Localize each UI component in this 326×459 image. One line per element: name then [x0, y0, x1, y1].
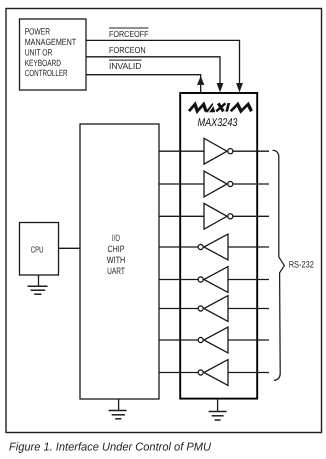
svg-text:FORCEON: FORCEON: [109, 45, 146, 55]
wire R5 output: [159, 372, 198, 374]
svg-text:UART: UART: [107, 266, 125, 276]
receiver R3 (triangle with bubble): [198, 296, 228, 322]
wire R3 input: [228, 308, 269, 310]
wire R4 input: [228, 339, 269, 341]
wire R3 output: [159, 308, 198, 310]
wire T3 input: [159, 215, 204, 217]
ground (below MAX3243): [209, 399, 227, 420]
svg-text:UNIT OR: UNIT OR: [25, 47, 53, 57]
driver T2 (triangle with bubble): [204, 171, 233, 197]
label FORCEOFF (overlined): [109, 28, 149, 39]
svg-text:MANAGEMENT: MANAGEMENT: [25, 37, 77, 47]
block PMU: POWER MANAGEMENT UNIT OR KEYBOARD CONTROLLER: [20, 19, 87, 90]
block I/O CHIP WITH UART: [80, 124, 159, 399]
receiver R2 (triangle with bubble): [198, 267, 228, 293]
svg-text:FORCEOFF: FORCEOFF: [109, 29, 149, 39]
block CPU: [20, 223, 59, 276]
svg-text:CHIP: CHIP: [107, 244, 124, 254]
wire FORCEON (PMU to MAX3243, turns down at x=220): [86, 57, 223, 93]
wire R1 input (from RS-232): [228, 246, 269, 248]
logo MAXIM (stylized wordmark): [189, 103, 254, 112]
ground (below I/O chip): [109, 399, 127, 419]
svg-text:I/O: I/O: [112, 233, 120, 243]
svg-text:MAX3243: MAX3243: [198, 117, 239, 129]
wire R5 input: [228, 372, 269, 374]
label INVALID (overlined): [109, 60, 142, 71]
receiver R1 (triangle with bubble): [198, 234, 228, 260]
label FORCEON: [109, 45, 146, 55]
svg-text:CPU: CPU: [31, 245, 44, 255]
wire R1 output (receiver to I/O chip): [159, 246, 198, 248]
svg-text:WITH: WITH: [107, 255, 126, 265]
driver T1 (triangle with bubble): [204, 138, 233, 164]
wire FORCEOFF (PMU to MAX3243, turns down at x=240): [86, 40, 243, 92]
ground (below CPU): [28, 275, 48, 294]
wire INVALID (MAX3243 up to PMU, arrow up at x=200.7): [86, 75, 204, 92]
driver T3 (triangle with bubble): [204, 203, 233, 229]
IC U1: MAX3243 box: [180, 93, 257, 399]
svg-text:CONTROLLER: CONTROLLER: [25, 68, 68, 78]
wire T2 output: [233, 183, 269, 185]
svg-text:POWER: POWER: [25, 26, 51, 36]
svg-text:Figure 1. Interface Under Cont: Figure 1. Interface Under Control of PMU: [9, 441, 212, 453]
receiver R5 (triangle with bubble): [198, 360, 228, 386]
wire T2 input: [159, 183, 204, 185]
wire T1 input (I/O chip to driver): [159, 150, 204, 152]
svg-text:KEYBOARD: KEYBOARD: [25, 58, 62, 68]
receiver R4 (triangle with bubble): [198, 327, 228, 353]
wire R2 input: [228, 279, 269, 281]
brace RS-232 (groups the 8 line pairs): [273, 150, 285, 380]
wire T1 output (to RS-232): [233, 150, 269, 152]
svg-text:RS-232: RS-232: [289, 259, 314, 269]
wire T3 output: [233, 215, 269, 217]
svg-text:INVALID: INVALID: [109, 61, 141, 71]
wire R4 output: [159, 339, 198, 341]
wire R2 output: [159, 279, 198, 281]
wire CPU to I/O chip: [59, 247, 81, 249]
